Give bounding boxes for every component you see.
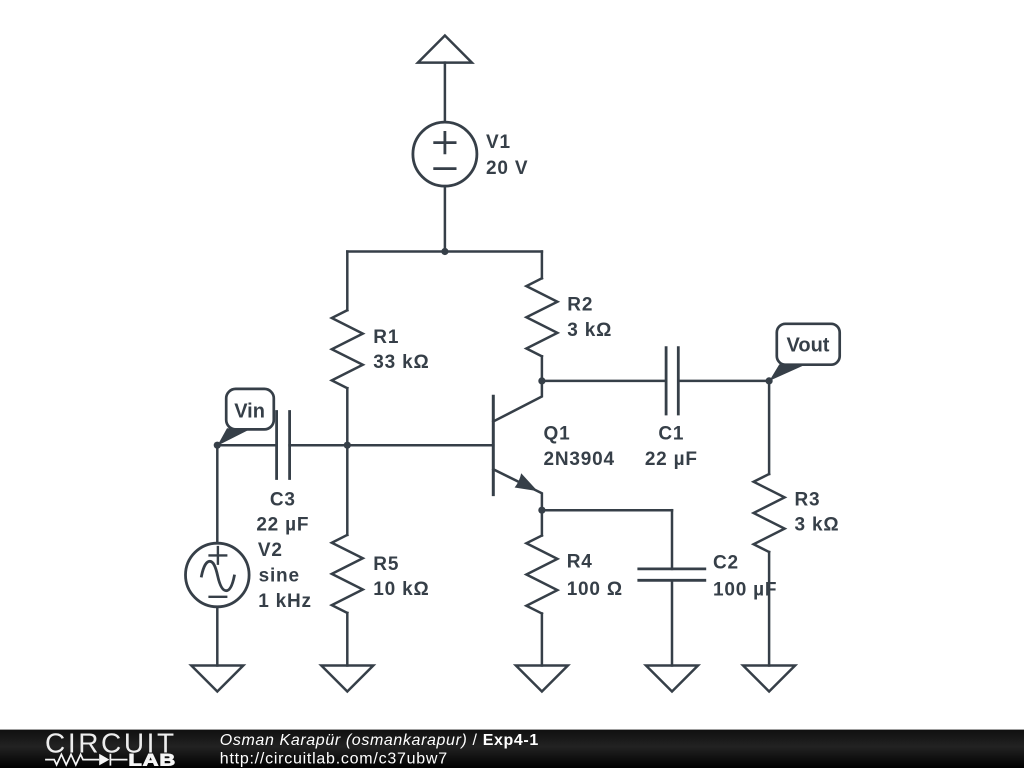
capacitor C3	[277, 412, 290, 479]
wire R2 to collector node	[541, 356, 544, 381]
svg-text:2N3904: 2N3904	[544, 449, 615, 470]
svg-text:V1: V1	[486, 132, 511, 153]
V2 sine wave	[202, 561, 235, 590]
svg-text:22 µF: 22 µF	[645, 449, 698, 470]
V1 plus sign	[435, 132, 455, 152]
svg-text:V2: V2	[258, 540, 283, 561]
logo resistor-diode glyph	[45, 754, 127, 766]
node Vout dot	[766, 377, 773, 384]
wire R5 to ground	[346, 613, 349, 666]
wire collector node to C1	[542, 380, 666, 383]
wire emitter node to C2	[542, 509, 672, 512]
wire emitter node to R4	[541, 510, 544, 535]
resistor R1	[332, 310, 363, 388]
svg-text:R2: R2	[567, 294, 593, 315]
wire VCC arrow to V1	[444, 63, 447, 122]
svg-text:R3: R3	[795, 490, 821, 511]
wire base node to Q1	[347, 444, 493, 447]
svg-text:22 µF: 22 µF	[256, 515, 309, 536]
wire rail to R2	[541, 252, 544, 279]
svg-text:100 µF: 100 µF	[713, 580, 777, 601]
svg-text:R1: R1	[373, 327, 399, 348]
Q1 emitter arrow	[515, 473, 538, 491]
Vin flag pointer	[217, 428, 250, 445]
resistor R5	[332, 535, 363, 613]
Vout flag pointer	[769, 364, 806, 381]
svg-text:LAB: LAB	[129, 752, 177, 768]
voltage source V1 body	[413, 122, 477, 186]
resistor R4	[526, 536, 557, 614]
wire C3 to base node	[290, 444, 348, 447]
wire C2 to ground	[671, 580, 674, 665]
junction node at rail	[441, 248, 448, 255]
V1 minus sign	[435, 167, 455, 170]
svg-text:C1: C1	[658, 423, 684, 444]
wire V2 to ground	[216, 607, 219, 666]
svg-text:Osman Karapür (osmankarapur) /: Osman Karapür (osmankarapur) / Exp4-1	[220, 732, 539, 749]
svg-text:10 kΩ: 10 kΩ	[373, 579, 429, 600]
Vin flag box	[226, 389, 274, 430]
V2 plus sign	[210, 547, 227, 564]
svg-text:C2: C2	[713, 553, 739, 574]
svg-text:C3: C3	[270, 490, 296, 511]
power flag VCC arrow	[418, 36, 472, 63]
wire Vin node to C3	[217, 444, 276, 447]
wire top rail	[347, 250, 542, 253]
wire base node to R5	[346, 445, 349, 535]
wire R4 to ground	[541, 614, 544, 666]
svg-text:Vout: Vout	[787, 334, 830, 356]
svg-text:1 kHz: 1 kHz	[258, 591, 312, 612]
wire down to C2	[671, 510, 674, 569]
junction node at emitter	[538, 507, 545, 514]
ground below C2	[646, 666, 698, 692]
wire rail to R1	[346, 252, 349, 311]
V2 minus sign	[210, 596, 227, 598]
svg-text:R4: R4	[567, 552, 593, 573]
wire V1 to top rail	[444, 186, 447, 251]
wire R3 to ground	[768, 552, 771, 666]
Q1 collector lead	[493, 381, 542, 422]
svg-text:Vin: Vin	[234, 401, 265, 423]
logo diode triangle	[99, 754, 109, 766]
transistor Q1 base bar	[492, 396, 495, 494]
svg-text:20 V: 20 V	[486, 158, 528, 179]
svg-text:3 kΩ: 3 kΩ	[795, 514, 840, 535]
svg-text:33 kΩ: 33 kΩ	[373, 352, 429, 373]
wire C1 to Vout node	[678, 380, 769, 383]
svg-text:100 Ω: 100 Ω	[567, 579, 623, 600]
svg-text:Q1: Q1	[544, 423, 571, 444]
source V2 body	[186, 543, 250, 607]
svg-text:R5: R5	[373, 554, 399, 575]
node Vin dot	[214, 442, 221, 449]
svg-text:http://circuitlab.com/c37ubw7: http://circuitlab.com/c37ubw7	[220, 750, 448, 767]
ground below R3	[743, 666, 795, 692]
capacitor C1	[666, 348, 678, 414]
wire R1 to base node	[346, 388, 349, 445]
junction node at collector	[538, 377, 545, 384]
capacitor C2	[639, 569, 705, 580]
Q1 emitter lead	[493, 469, 542, 510]
ground below V2	[191, 666, 243, 692]
junction node at base	[344, 442, 351, 449]
resistor R2	[526, 278, 557, 356]
wire Vout node to R3	[768, 381, 771, 474]
svg-text:3 kΩ: 3 kΩ	[567, 320, 612, 341]
svg-text:sine: sine	[259, 565, 300, 586]
ground below R4	[516, 666, 568, 692]
resistor R3	[754, 474, 785, 552]
wire Vin node to V2	[216, 445, 219, 543]
Vout flag box	[777, 324, 840, 365]
ground below R5	[321, 666, 373, 692]
